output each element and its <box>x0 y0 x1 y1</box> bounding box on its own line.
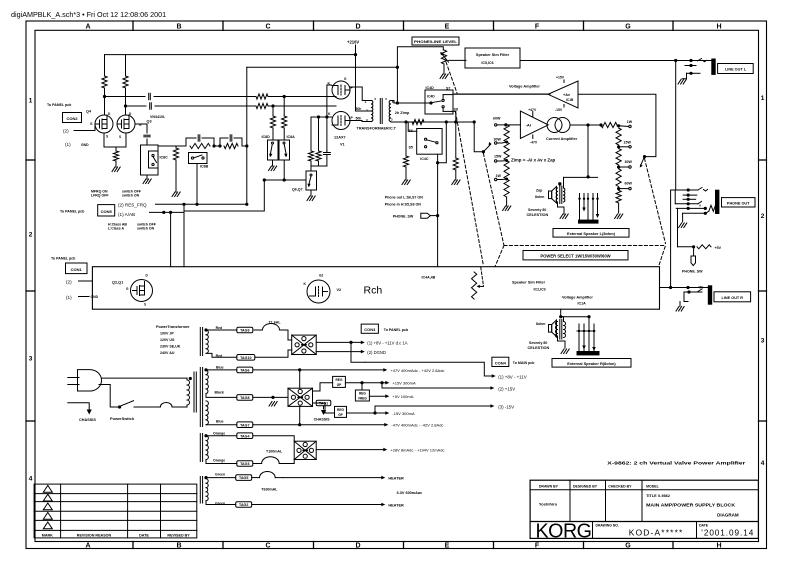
revision mark triangle <box>43 485 52 492</box>
frame tick <box>759 159 767 161</box>
frame tick <box>222 542 224 549</box>
resistor R11 <box>310 117 312 151</box>
relay IC8C <box>141 145 159 175</box>
ground <box>269 402 272 407</box>
wire DGND out <box>316 351 363 353</box>
svg-text:15W: 15W <box>494 155 502 159</box>
label box POWER SELECT <box>523 251 628 260</box>
wire +8V out <box>316 341 363 343</box>
frame tick <box>26 420 35 422</box>
svg-text:MARK: MARK <box>42 533 53 537</box>
svg-text:DATE: DATE <box>699 524 709 528</box>
svg-text:C: C <box>265 542 270 549</box>
svg-text:X-9862: 2 ch Vertual Valve Pow: X-9862: 2 ch Vertual Valve Power Amplifi… <box>607 460 745 465</box>
ground <box>452 180 455 185</box>
svg-text:PHONE OUT: PHONE OUT <box>727 202 750 206</box>
relay IC8B <box>189 153 208 164</box>
tag TAG10 <box>237 355 255 361</box>
frame tick <box>759 290 767 292</box>
svg-text:To PANEL pcb: To PANEL pcb <box>51 257 76 261</box>
svg-text:T630mAL: T630mAL <box>261 488 278 492</box>
svg-text:IC4D: IC4D <box>427 95 435 99</box>
svg-text:CELESTION: CELESTION <box>527 213 549 217</box>
tag TAG4 <box>237 433 253 439</box>
wire <box>247 66 398 68</box>
svg-text:Voltage Amplifier: Voltage Amplifier <box>509 85 540 89</box>
wire <box>115 161 117 167</box>
regulator REG GP -15 <box>313 403 335 413</box>
tag TAG1 <box>316 400 331 406</box>
frame tick <box>583 21 585 30</box>
wire <box>453 93 548 95</box>
wire drain feeds <box>104 55 106 76</box>
revision mark triangle <box>43 522 52 529</box>
frame tick <box>493 542 495 549</box>
transistor pair Q6,Q7 <box>306 171 317 190</box>
svg-text:Speaker Sim Filter: Speaker Sim Filter <box>512 281 546 285</box>
wire mains neutral <box>99 385 118 408</box>
wire filter out to line out <box>520 60 712 62</box>
wire heater 2 <box>252 504 384 506</box>
svg-text:6.3V 600mAac: 6.3V 600mAac <box>397 491 423 495</box>
svg-text:+47V 400mAdc - +42V 2.8Adc: +47V 400mAdc - +42V 2.8Adc <box>390 368 444 373</box>
svg-text:F: F <box>535 24 540 31</box>
transformer core <box>193 372 195 412</box>
wire +47V rail <box>253 369 385 371</box>
ground <box>615 214 618 219</box>
svg-text:IC8A: IC8A <box>287 135 296 139</box>
svg-text:CHECKED BY: CHECKED BY <box>608 484 632 488</box>
wire <box>268 105 336 107</box>
svg-text:PHONE/LINE LEVEL: PHONE/LINE LEVEL <box>414 40 458 44</box>
resistor R9 <box>270 116 275 128</box>
svg-text:Q4: Q4 <box>86 110 92 114</box>
svg-text:-AI: -AI <box>526 123 531 128</box>
frame tick <box>132 21 134 30</box>
regulator REG VREG +5 <box>361 383 363 390</box>
revision table <box>34 484 197 538</box>
svg-text:50h: 50h <box>356 107 362 111</box>
svg-text:DRAWING NO.: DRAWING NO. <box>596 524 619 528</box>
switch blade ladder L <box>483 145 490 152</box>
jack spring <box>705 205 715 213</box>
wire <box>104 88 106 115</box>
svg-text:CON4: CON4 <box>495 360 507 365</box>
svg-text:+5V 100mA: +5V 100mA <box>392 394 413 399</box>
svg-text:+28V 8mAdc - +194V 12mAdc: +28V 8mAdc - +194V 12mAdc <box>390 448 444 453</box>
transformer secondary W3 <box>199 434 201 462</box>
wire <box>242 145 247 147</box>
svg-text:60W: 60W <box>493 117 501 121</box>
svg-text:S5: S5 <box>409 146 413 150</box>
frame tick <box>759 420 767 422</box>
svg-text:+5V: +5V <box>715 246 722 250</box>
svg-text:digiAMPBLK_A.sch*3 • Fri Oct: digiAMPBLK_A.sch*3 • Fri Oct 12 12:08:06… <box>11 10 166 19</box>
svg-text:15W: 15W <box>624 141 632 145</box>
svg-text:CON5: CON5 <box>101 209 113 214</box>
resistor R12 <box>318 117 320 151</box>
svg-text:Seventy 80: Seventy 80 <box>529 341 547 345</box>
svg-text:(2): (2) <box>66 279 72 284</box>
svg-text:KORG: KORG <box>536 520 592 543</box>
svg-text:switch ON: switch ON <box>122 194 140 198</box>
svg-text:50h: 50h <box>356 117 362 121</box>
fuse T630mAL <box>252 477 260 479</box>
label box PHONE/LINE LEVEL <box>412 37 459 45</box>
speaker L <box>549 191 552 199</box>
wire gate Q3 to cap <box>135 124 147 133</box>
svg-text:LINE OUT R: LINE OUT R <box>722 296 744 300</box>
svg-text:Green: Green <box>215 473 225 477</box>
tube V2 <box>307 280 330 303</box>
label box External Speaker L <box>553 229 629 238</box>
svg-text:CELESTION: CELESTION <box>528 346 550 350</box>
transformer speaker L <box>558 182 561 185</box>
wire <box>560 309 562 317</box>
ground <box>440 74 443 79</box>
wire <box>175 160 177 192</box>
svg-text:4: 4 <box>29 476 33 483</box>
dashed link line <box>446 62 457 93</box>
svg-text:Rch: Rch <box>364 285 383 297</box>
wire <box>246 67 248 204</box>
speaker R <box>549 325 552 333</box>
wire (3) <box>375 405 492 407</box>
wire +28V out <box>316 449 385 451</box>
svg-text:Speaker Sim Filter: Speaker Sim Filter <box>476 53 510 57</box>
connector CON5 <box>98 205 115 216</box>
svg-text:To PANEL pcb: To PANEL pcb <box>384 328 409 332</box>
svg-text:IC4D: IC4D <box>426 86 435 90</box>
svg-text:CHASSIS: CHASSIS <box>79 418 96 422</box>
resistor R6 <box>173 148 178 160</box>
jack LINE OUT R contacts <box>686 286 689 289</box>
regulator REG GP +15 <box>313 383 333 391</box>
svg-text:D: D <box>355 542 360 549</box>
svg-text:IC2,IC3: IC2,IC3 <box>534 288 546 292</box>
svg-text:1: 1 <box>365 100 367 104</box>
wire <box>299 370 301 388</box>
svg-text:CON2: CON2 <box>66 116 78 121</box>
svg-text:-15V 300mA: -15V 300mA <box>392 411 415 416</box>
svg-text:240V AU: 240V AU <box>160 351 175 355</box>
svg-text:(1): (1) <box>66 295 72 300</box>
svg-text:3: 3 <box>761 338 765 345</box>
revision mark triangle <box>43 494 52 501</box>
wire <box>283 97 285 117</box>
svg-text:REG: REG <box>336 378 343 382</box>
transistor Q3 <box>117 115 135 133</box>
wire <box>154 96 256 98</box>
svg-text:60W: 60W <box>625 182 633 186</box>
svg-text:120V US: 120V US <box>160 338 175 342</box>
svg-text:S: S <box>106 135 108 139</box>
wire <box>268 96 336 98</box>
svg-text:KOD-A*****: KOD-A***** <box>629 527 683 537</box>
resistor R3 <box>256 94 268 99</box>
svg-text:DATE: DATE <box>139 533 149 537</box>
resistor R16 <box>601 122 617 127</box>
jack PHONE OUT contacts <box>675 189 698 191</box>
svg-text:IC4A,4B: IC4A,4B <box>422 276 436 280</box>
switch blade ladder R <box>643 155 646 158</box>
svg-text:E: E <box>445 24 450 31</box>
transformer speaker R <box>559 315 562 318</box>
resistor R15 <box>455 122 457 158</box>
current amplifier symbol <box>547 118 562 133</box>
svg-text:-47V 400mAdc - -42V 2.8Adc: -47V 400mAdc - -42V 2.8Adc <box>391 423 443 428</box>
svg-text:External Speaker L(8ohm): External Speaker L(8ohm) <box>567 231 616 236</box>
svg-text:H: H <box>716 24 721 31</box>
svg-text:Q3: Q3 <box>147 120 152 124</box>
svg-text:1: 1 <box>29 98 33 105</box>
AC plug <box>78 370 102 391</box>
tag TAG2 <box>236 502 252 508</box>
revision mark triangle <box>43 512 52 519</box>
svg-text:TAG6: TAG6 <box>240 369 249 373</box>
svg-text:8ohm: 8ohm <box>536 322 545 326</box>
wire grid line 1 <box>105 96 146 98</box>
frame tick <box>313 21 315 30</box>
svg-text:DRAWN BY: DRAWN BY <box>539 484 559 488</box>
wire +15V rail <box>345 382 387 384</box>
potentiometer level <box>441 50 446 64</box>
svg-text:-15V: -15V <box>555 108 563 112</box>
connector CON3 <box>361 324 378 333</box>
label box LINE OUT R <box>714 292 751 302</box>
svg-text:Orange: Orange <box>213 458 225 462</box>
wire plate a <box>350 87 372 101</box>
resistor drain R1 <box>102 76 107 88</box>
RC network 2 cap C5 <box>219 138 221 146</box>
wire blade to bus <box>474 122 483 152</box>
svg-text:+Av: +Av <box>563 93 571 97</box>
svg-text:Phone out L:S6,S7 ON: Phone out L:S6,S7 ON <box>385 196 424 200</box>
tag TAG9 <box>237 327 253 333</box>
svg-text:Q6,Q7: Q6,Q7 <box>292 188 303 192</box>
svg-text:CON1: CON1 <box>71 267 83 272</box>
svg-text:switch OFF: switch OFF <box>137 222 157 226</box>
wire phone sleeve down <box>677 208 679 246</box>
svg-text:POWER SELECT 1W/15W/30W/60W: POWER SELECT 1W/15W/30W/60W <box>540 253 610 258</box>
ground <box>503 206 506 211</box>
frame tick <box>403 21 405 30</box>
svg-text:+5V: +5V <box>698 286 705 290</box>
connector CON2 <box>63 113 82 123</box>
svg-text:Current Amplifier: Current Amplifier <box>546 137 578 141</box>
resistor source R5 <box>113 151 118 161</box>
svg-text:(1) +8V - +11V d.c 1A: (1) +8V - +11V d.c 1A <box>367 340 407 345</box>
wire feedback <box>578 94 656 156</box>
connector CON1 <box>66 263 88 274</box>
svg-text:REVISION REASON: REVISION REASON <box>77 533 112 537</box>
svg-text:IC8B: IC8B <box>200 165 209 169</box>
switch PowerSwitch <box>118 405 121 408</box>
connector PHONE_SW <box>693 247 695 256</box>
chassis arrow <box>323 406 325 409</box>
wire +216V center tap <box>356 55 372 111</box>
wire <box>176 145 186 147</box>
wire line L down <box>675 61 677 191</box>
wire <box>272 160 274 166</box>
svg-text:GND: GND <box>91 295 99 299</box>
connector external speaker L pins <box>563 177 565 188</box>
svg-text:E: E <box>445 542 450 549</box>
connector CON4 <box>492 357 509 366</box>
wire cathode bus <box>327 84 332 86</box>
wire center tap <box>253 396 288 398</box>
transformer secondary 2h <box>389 101 390 105</box>
jack LINE OUT L <box>712 59 715 74</box>
wire <box>170 212 172 266</box>
svg-text:H: H <box>716 542 721 549</box>
wire secondary bottom <box>391 121 475 124</box>
tube V1 triode a <box>332 81 350 99</box>
svg-text:To PANEL pcb: To PANEL pcb <box>47 103 72 107</box>
svg-text:B: B <box>176 542 181 549</box>
svg-text:100V JP: 100V JP <box>160 332 174 336</box>
svg-text:(3) -15V: (3) -15V <box>498 404 514 409</box>
tag TAG5 <box>236 475 252 481</box>
svg-text:switch ON: switch ON <box>137 227 155 231</box>
frame tick <box>313 542 315 549</box>
wire (2) <box>382 387 492 389</box>
svg-text:30W: 30W <box>494 138 502 142</box>
transformer secondary W2 <box>199 368 201 427</box>
resistor R4 <box>256 103 268 108</box>
svg-text:HEATER: HEATER <box>388 503 404 507</box>
svg-text:To PANEL pcb: To PANEL pcb <box>60 209 85 213</box>
wire sources join <box>104 133 116 147</box>
wire grid line 2 <box>126 105 147 107</box>
svg-text:F: F <box>535 542 540 549</box>
svg-text:CHASSIS: CHASSIS <box>314 417 331 421</box>
frame tick <box>26 290 35 292</box>
svg-text:TAG5: TAG5 <box>239 476 248 480</box>
svg-text:Zap: Zap <box>536 189 542 193</box>
wire <box>183 204 185 266</box>
ground <box>402 180 405 185</box>
wire <box>196 164 198 205</box>
svg-text:-47V: -47V <box>530 141 538 145</box>
wire +216V drop <box>355 45 357 55</box>
frame tick <box>672 542 674 549</box>
svg-text:TAG9: TAG9 <box>240 329 249 333</box>
svg-text:Blue: Blue <box>216 419 224 423</box>
wire Rch out <box>660 287 709 289</box>
svg-text:TAG8: TAG8 <box>240 396 249 400</box>
svg-text:switch OFF: switch OFF <box>122 189 142 193</box>
svg-text:2: 2 <box>761 213 765 220</box>
frame tick <box>26 159 35 161</box>
bridge rectifier B2 <box>288 388 313 406</box>
svg-text:12AX7: 12AX7 <box>334 136 346 140</box>
svg-text:VREG: VREG <box>358 396 368 400</box>
RC network resistor R7 <box>190 143 210 148</box>
frame tick <box>403 542 405 549</box>
wire <box>674 190 677 204</box>
tube V1 triode b <box>332 112 350 130</box>
dashed link line <box>495 246 504 267</box>
svg-text:TAG3: TAG3 <box>240 462 249 466</box>
wire <box>558 202 565 214</box>
ground <box>269 166 272 171</box>
svg-text:GND: GND <box>81 143 89 147</box>
RC network 2 resistor R8 <box>224 143 238 148</box>
svg-text:G2: G2 <box>319 274 323 278</box>
ground <box>679 223 682 228</box>
svg-text:G: G <box>625 542 631 549</box>
wire <box>310 190 312 196</box>
svg-text:TAG1: TAG1 <box>319 402 328 406</box>
transformer core <box>379 99 381 124</box>
svg-text:+15V: +15V <box>556 76 565 80</box>
dashed link line <box>504 245 665 247</box>
capacitor C1 <box>148 93 150 99</box>
svg-text:TAG7: TAG7 <box>240 423 249 427</box>
svg-text:MAIN AMP/POWER SUPPLY BLOCK: MAIN AMP/POWER SUPPLY BLOCK <box>646 502 736 507</box>
ground <box>561 349 564 354</box>
svg-text:1W: 1W <box>496 174 502 178</box>
svg-text:2: 2 <box>29 232 33 239</box>
resistor R14 <box>405 122 407 156</box>
wire <box>453 93 550 95</box>
jack PHONE OUT <box>716 190 719 213</box>
svg-text:S: S <box>144 303 146 307</box>
svg-text:TAG10: TAG10 <box>240 356 251 360</box>
svg-text:IC4C: IC4C <box>420 157 429 161</box>
capacitor C2 <box>149 103 151 109</box>
label box External Speaker R <box>552 359 631 368</box>
ground <box>676 307 679 312</box>
svg-text:Seventy 80: Seventy 80 <box>528 208 546 212</box>
wire plate b <box>350 121 372 122</box>
svg-text:Orange: Orange <box>213 432 225 436</box>
wire RES_FRQ <box>156 203 247 205</box>
bridge rectifier B1 <box>292 335 317 354</box>
svg-text:MFRQ ON: MFRQ ON <box>91 189 108 193</box>
svg-text:G: G <box>625 24 631 31</box>
svg-text:T100mAL: T100mAL <box>266 450 283 454</box>
wire heater 1 <box>283 477 383 479</box>
svg-text:PHONE_SW: PHONE_SW <box>682 270 703 274</box>
svg-text:30W: 30W <box>625 160 633 164</box>
svg-text:V2: V2 <box>337 288 342 292</box>
dashed link line <box>659 246 665 265</box>
wire <box>178 406 187 408</box>
RC network cap C4 <box>185 138 187 146</box>
svg-text:Zimp = -AI x Av x Zap: Zimp = -AI x Av x Zap <box>511 158 556 163</box>
ground <box>560 214 563 219</box>
filter box Speaker Sim Filter IC5,IC6 <box>465 48 520 68</box>
svg-text:Blue: Blue <box>216 366 224 370</box>
wire gate Q4 <box>74 124 95 131</box>
wire <box>146 175 148 179</box>
title block <box>530 480 758 538</box>
svg-text:(2) RES_FRQ: (2) RES_FRQ <box>118 202 147 207</box>
dashed link line <box>456 112 484 266</box>
wire <box>678 246 694 248</box>
chassis stub <box>68 403 89 409</box>
wire ground leg <box>682 213 684 222</box>
svg-text:TAG2: TAG2 <box>239 503 248 507</box>
resistor R10 <box>282 116 287 128</box>
svg-text:VN3410L: VN3410L <box>150 115 166 119</box>
wire <box>558 336 566 348</box>
wire <box>146 139 148 145</box>
transformer primary winding <box>189 377 192 380</box>
svg-text:4: 4 <box>761 460 765 467</box>
